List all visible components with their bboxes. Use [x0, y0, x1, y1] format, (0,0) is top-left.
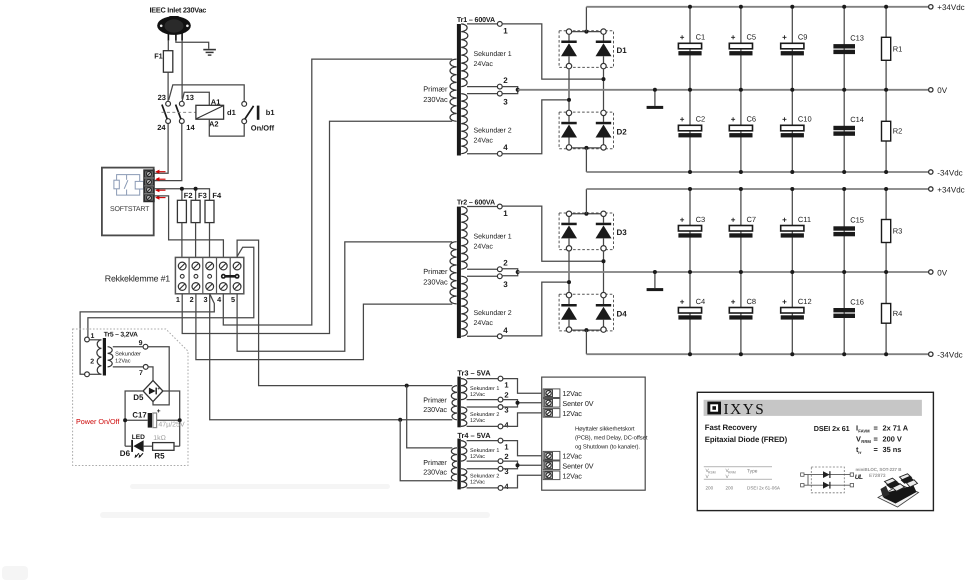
wire relay coil A2 to pushbutton b1 bottom [209, 119, 244, 136]
wire D1 cathodes junction [572, 31, 601, 33]
svg-text:230Vac: 230Vac [423, 405, 447, 414]
wire Tr3 pins 2-3 to PCB Senter 0V [503, 400, 518, 407]
wire bridge AC right column [603, 251, 605, 292]
Tr1 pin 2 [467, 86, 497, 88]
capacitor C8 [729, 308, 752, 314]
Tr2 pin 3 [467, 275, 497, 277]
terminal 0V [929, 88, 933, 92]
wire contact 14 to softstart terminal 2 [154, 124, 182, 181]
Tr4 pin 4 [467, 487, 499, 489]
pushbutton b1 On/Off [242, 102, 260, 124]
Tr3 pin 3 [467, 406, 499, 408]
resistor R5 [153, 443, 174, 451]
svg-text:2: 2 [90, 359, 94, 366]
wire inlet neutral to contact 13 [181, 40, 183, 99]
svg-text:C16: C16 [850, 297, 864, 306]
wire C17 branch left [125, 419, 148, 421]
svg-text:SOFTSTART: SOFTSTART [110, 206, 150, 213]
svg-text:D5: D5 [133, 393, 144, 402]
capacitor C9 [781, 43, 804, 49]
svg-text:F2: F2 [184, 191, 193, 200]
wire Tr5 primary pin 1 to terminal 5 [88, 247, 254, 337]
junction at F2 top [180, 187, 184, 191]
svg-text:1: 1 [503, 27, 508, 36]
capacitor C2 [678, 125, 701, 131]
label Fast Recovery Epitaxial Diode [705, 423, 788, 444]
column wires for C13/C14 [843, 7, 845, 90]
svg-text:24: 24 [157, 123, 166, 132]
jumper between terminals 4 and 5 [221, 274, 240, 279]
svg-text:35 ns: 35 ns [883, 445, 902, 454]
svg-text:Tr1 – 600VA: Tr1 – 600VA [457, 16, 495, 24]
svg-text:Tr2 – 600VA: Tr2 – 600VA [457, 198, 495, 206]
capacitor C17 [148, 408, 161, 428]
wire bridge AC right column [603, 69, 605, 110]
rail +34Vdc [586, 188, 928, 190]
svg-text:Høyttaler sikkerhetskort: Høyttaler sikkerhetskort [575, 426, 635, 433]
svg-text:RRM: RRM [728, 471, 736, 475]
capacitor C16 [833, 308, 855, 312]
svg-text:12Vac: 12Vac [562, 471, 582, 480]
relay contact 23/24 [162, 101, 171, 123]
svg-text:FAVM: FAVM [858, 428, 870, 433]
terminal +34Vdc [929, 187, 933, 191]
Tr1 pin 4 [467, 153, 497, 155]
fuse F3 [191, 200, 200, 222]
wire inlet live to fuse F1 [167, 40, 169, 51]
softstart module box [102, 168, 154, 236]
rail +34Vdc [586, 6, 928, 8]
svg-text:C2: C2 [696, 115, 706, 124]
svg-text:Fast Recovery: Fast Recovery [705, 423, 758, 432]
wire Tr5 pin 7 to bridge D5 top [148, 367, 153, 380]
svg-text:+: + [680, 297, 685, 306]
svg-text:2: 2 [503, 76, 508, 85]
svg-text:Power On/Off: Power On/Off [76, 417, 119, 426]
svg-text:200: 200 [726, 486, 734, 491]
svg-text:DSEI 2x 61: DSEI 2x 61 [814, 424, 850, 433]
ground symbol on 0V rail [654, 90, 656, 106]
Tr3 pin 2 [467, 399, 499, 401]
svg-text:24Vac: 24Vac [474, 320, 494, 327]
svg-text:E72873: E72873 [869, 473, 886, 479]
junction at F3 top [194, 187, 198, 191]
column wires for C1/C2 [689, 7, 691, 90]
svg-text:=: = [874, 445, 879, 454]
svg-text:3: 3 [503, 280, 508, 289]
svg-text:C1: C1 [696, 33, 706, 42]
UL mark [855, 473, 886, 481]
svg-text:R2: R2 [893, 127, 903, 136]
svg-text:(PCB), med Delay, DC-offset: (PCB), med Delay, DC-offset [575, 435, 648, 442]
column wires for C15/C16 [843, 189, 845, 272]
svg-text:og Shutdown (to kanaler).: og Shutdown (to kanaler). [575, 443, 640, 450]
wire contact 23 to pushbutton b1 top [169, 85, 245, 102]
resistor R2 [882, 121, 891, 141]
Tr2 pin 1 [467, 206, 497, 208]
svg-text:D4: D4 [617, 310, 628, 319]
svg-text:3: 3 [203, 295, 207, 304]
capacitor C7 [729, 226, 752, 232]
svg-text:D2: D2 [617, 127, 628, 136]
svg-text:12Vac: 12Vac [562, 389, 582, 398]
wire Tr4 pin4 to PCB 12Vac [503, 475, 543, 488]
wire bridge AC left column [568, 251, 570, 292]
svg-text:+34Vdc: +34Vdc [937, 185, 964, 194]
svg-text:2: 2 [504, 452, 508, 461]
svg-text:V: V [856, 434, 861, 443]
svg-text:4: 4 [503, 143, 508, 152]
svg-text:23: 23 [158, 93, 166, 102]
Tr5 pin 1 [85, 337, 90, 342]
svg-text:12Vac: 12Vac [115, 359, 131, 365]
fuse F2 [177, 200, 186, 222]
rail 0V [518, 89, 929, 91]
svg-text:Sekundær 1: Sekundær 1 [474, 232, 512, 240]
svg-text:Type: Type [747, 469, 758, 475]
svg-text:IEEC Inlet 230Vac: IEEC Inlet 230Vac [150, 6, 207, 15]
svg-text:R3: R3 [893, 227, 903, 236]
wire pin1 to right column [502, 24, 603, 79]
wire branch to Tr4 primary top [407, 386, 453, 448]
Tr5 pin 9 [143, 344, 148, 349]
svg-text:200: 200 [706, 486, 714, 491]
wire Tr4 pins 2-3 to PCB Senter 0V [503, 461, 518, 469]
Tr2 pin 4 [467, 335, 497, 337]
svg-text:C9: C9 [798, 33, 808, 42]
wire terminal 5 loop to Tr3/Tr4 primary top [237, 240, 452, 386]
wire softstart terminal 4 to terminal block position 4 [154, 196, 223, 258]
svg-text:C12: C12 [798, 297, 812, 306]
svg-text:Sekundær 2: Sekundær 2 [474, 127, 512, 135]
svg-text:3: 3 [503, 97, 508, 106]
svg-text:+34Vdc: +34Vdc [937, 3, 964, 12]
svg-text:2: 2 [190, 295, 194, 304]
wire center tap pins 2-3 [502, 87, 518, 94]
wire bridge AC left column [568, 69, 570, 110]
svg-text:1kΩ: 1kΩ [153, 434, 166, 442]
wire D5 plus output (left) [125, 391, 143, 446]
svg-text:14: 14 [186, 123, 195, 132]
svg-text:Tr4 – 5VA: Tr4 – 5VA [457, 431, 491, 440]
capacitor C15 [833, 226, 855, 230]
svg-text:Sekundær: Sekundær [115, 351, 141, 358]
package photo [878, 474, 919, 507]
svg-text:12Vac: 12Vac [470, 454, 485, 460]
svg-text:Rekkeklemme #1: Rekkeklemme #1 [105, 273, 170, 283]
relay contact 13/14 [176, 101, 185, 123]
svg-text:12Vac: 12Vac [470, 418, 485, 424]
svg-text:Primær: Primær [423, 396, 447, 405]
svg-text:Senter 0V: Senter 0V [562, 399, 593, 408]
svg-text:1: 1 [503, 209, 508, 218]
wire D3 cathodes junction [572, 213, 601, 215]
svg-text:IXYS: IXYS [724, 401, 766, 418]
labels terminal numbers 1-5 [176, 295, 235, 304]
capacitor C11 [781, 226, 804, 232]
svg-text:d1: d1 [227, 108, 236, 117]
wire D2 anodes junction [572, 147, 601, 149]
wire Tr3 pin4 to PCB 12Vac [503, 413, 543, 427]
wire terminal 3 to Tr3/Tr4 primary bottom [210, 294, 453, 420]
svg-text:+: + [731, 297, 736, 306]
column wires for C5/C6 [740, 7, 742, 90]
svg-text:D1: D1 [617, 46, 628, 55]
Tr5 pin 2 [85, 372, 90, 377]
column wires for C9/C10 [791, 7, 793, 90]
column wires for C7/C8 [740, 189, 742, 272]
softstart terminal block [144, 170, 154, 202]
svg-text:230Vac: 230Vac [423, 277, 448, 286]
svg-text:Tr3 – 5VA: Tr3 – 5VA [457, 369, 491, 378]
capacitor C10 [781, 125, 804, 131]
svg-text:A2: A2 [209, 120, 219, 129]
svg-text:230Vac: 230Vac [423, 95, 448, 104]
svg-text:D6: D6 [120, 449, 131, 458]
junction Tr3/Tr4 primary top [405, 384, 409, 388]
column wires for R3/R4 [885, 189, 887, 272]
PCB terminal rows [543, 389, 560, 480]
rectifier D1 (upper half-bridge) [559, 31, 613, 68]
junction C17 right [178, 418, 182, 422]
wire pin4 to left column [502, 100, 569, 154]
junction C17 left [123, 418, 127, 422]
capacitor C4 [678, 308, 701, 314]
wire contact 13 to relay coil A1 [182, 92, 209, 105]
LED D6 [131, 440, 143, 458]
wire F1 to contact 23 [167, 72, 169, 101]
faint scan artifacts [2, 484, 490, 580]
wire terminal 2 to Tr2 primary bottom [196, 294, 452, 360]
svg-text:Epitaxial Diode (FRED): Epitaxial Diode (FRED) [705, 435, 788, 444]
wire Tr4 pin1 to PCB 12Vac [503, 441, 543, 456]
IXYS datasheet box [697, 392, 933, 510]
svg-text:200 V: 200 V [883, 434, 902, 443]
svg-text:+: + [731, 215, 736, 224]
transformer Tr1 [450, 24, 468, 156]
resistor R4 [882, 304, 891, 324]
terminal 0V [929, 270, 933, 274]
svg-text:+: + [680, 115, 685, 124]
svg-text:LED: LED [132, 434, 145, 441]
IEC inlet connector J1 [157, 16, 191, 41]
wire LED branch [125, 445, 131, 447]
Tr4 pin 2 [467, 460, 499, 462]
capacitor C5 [729, 43, 752, 49]
wire contact 24 to softstart terminal 1 [154, 124, 168, 174]
Tr3 pin 4 [467, 425, 499, 427]
relay coil d1 [196, 105, 224, 119]
labels PCB terminals [562, 389, 593, 480]
svg-text:+: + [680, 215, 685, 224]
svg-text:Senter 0V: Senter 0V [562, 461, 593, 470]
svg-text:7: 7 [139, 370, 143, 377]
rectifier D3 (upper half-bridge) [559, 213, 613, 250]
wire pin4 to left column [502, 282, 569, 336]
module symbol (dual diode) [801, 467, 854, 493]
column wires for R1/R2 [885, 7, 887, 90]
svg-text:+: + [157, 408, 161, 415]
wire F3 to terminal 2 [195, 223, 197, 258]
svg-text:+: + [782, 33, 787, 42]
wire F4 to terminal 3 [209, 223, 211, 258]
svg-text:R4: R4 [893, 309, 903, 318]
terminal +34Vdc [929, 5, 933, 9]
svg-text:D3: D3 [617, 228, 628, 237]
svg-text:12Vac: 12Vac [470, 392, 485, 398]
terminal -34Vdc [929, 170, 933, 174]
transformer Tr2 [450, 207, 468, 339]
junction Tr3/Tr4 primary bottom [398, 418, 402, 422]
wire branch to Tr4 primary bottom [400, 420, 452, 481]
wire terminal 3 to Tr5 primary pin 2 [80, 294, 214, 375]
svg-text:C14: C14 [850, 115, 864, 124]
capacitor C13 [833, 44, 855, 48]
svg-text:24Vac: 24Vac [474, 137, 494, 144]
fuse F4 [205, 200, 214, 222]
wire C17 branch right [157, 419, 180, 421]
resistor R1 [882, 37, 891, 60]
svg-text:Tr5 – 3,2VA: Tr5 – 3,2VA [104, 332, 138, 339]
svg-text:C5: C5 [747, 33, 757, 42]
wire Tr3 pin1 to PCB 12Vac [503, 379, 543, 394]
svg-text:+: + [782, 115, 787, 124]
rail -34Vdc [586, 171, 928, 173]
fuse F1 [163, 51, 172, 72]
svg-text:0V: 0V [937, 268, 947, 277]
svg-text:Primær: Primær [423, 267, 448, 276]
svg-text:C7: C7 [747, 215, 757, 224]
svg-text:R5: R5 [154, 452, 165, 461]
svg-text:F3: F3 [198, 191, 207, 200]
transformer Tr3 [451, 377, 466, 428]
svg-text:2: 2 [504, 390, 508, 399]
column wires for C11/C12 [791, 189, 793, 272]
svg-text:Sekundær 2: Sekundær 2 [474, 309, 512, 317]
svg-text:C6: C6 [747, 115, 757, 124]
svg-text:-34Vdc: -34Vdc [937, 351, 962, 360]
svg-text:1: 1 [176, 295, 180, 304]
svg-text:C3: C3 [696, 215, 706, 224]
svg-text:47µ/25V: 47µ/25V [158, 421, 185, 429]
IXYS header band [704, 400, 922, 416]
label PCB description [575, 426, 648, 451]
Tr3 pin 1 [467, 378, 499, 380]
dashed outline power-on module [73, 329, 188, 466]
svg-text:RRM: RRM [861, 439, 871, 444]
rail 0V [518, 271, 929, 273]
svg-text:12Vac: 12Vac [562, 452, 582, 461]
capacitor C1 [678, 43, 701, 49]
svg-text:C13: C13 [850, 34, 864, 43]
Tr5 pin 7 [143, 365, 148, 370]
Tr1 pin 3 [467, 93, 497, 95]
svg-text:UL: UL [855, 474, 863, 481]
svg-text:9: 9 [139, 340, 143, 347]
svg-text:+: + [782, 215, 787, 224]
svg-text:C11: C11 [798, 215, 811, 224]
svg-text:b1: b1 [266, 108, 275, 117]
svg-text:Sekundær 1: Sekundær 1 [474, 50, 512, 58]
svg-text:+: + [782, 297, 787, 306]
Tr4 pin 3 [467, 468, 499, 470]
svg-text:F4: F4 [212, 191, 222, 200]
mechanical linkage (dashed) [162, 111, 196, 113]
svg-text:24Vac: 24Vac [474, 61, 494, 68]
svg-text:C10: C10 [798, 115, 812, 124]
svg-text:=: = [874, 434, 879, 443]
wire F2 to terminal 1 [181, 223, 183, 258]
terminal block Rekkeklemme #1 [175, 257, 243, 293]
ground symbol on 0V rail [654, 272, 656, 288]
svg-text:miniBLOC, SOT-227 B: miniBLOC, SOT-227 B [856, 467, 902, 472]
transformer Tr5 [97, 338, 113, 376]
wire center tap pins 2-3 [502, 269, 518, 276]
ground earth symbol [203, 50, 216, 56]
rectifier D2 (lower half-bridge) [559, 112, 613, 149]
svg-text:+: + [731, 115, 736, 124]
svg-text:A1: A1 [211, 97, 221, 106]
resistor R3 [882, 220, 891, 243]
capacitor C6 [729, 125, 752, 131]
label ratings [856, 424, 909, 455]
svg-text:12Vac: 12Vac [470, 480, 485, 486]
svg-text:Primær: Primær [423, 85, 448, 94]
svg-text:24Vac: 24Vac [474, 244, 494, 251]
svg-text:C4: C4 [696, 297, 706, 306]
svg-text:+: + [680, 33, 685, 42]
wire terminal 4 to Tr1 primary top [223, 59, 452, 325]
wire Tr5 pin 9 to bridge D5 bottom [148, 347, 169, 405]
wire inlet earth to ground [176, 40, 209, 49]
svg-text:4: 4 [503, 326, 508, 335]
capacitor C14 [833, 126, 855, 130]
svg-text:C17: C17 [132, 411, 146, 420]
svg-text:230Vac: 230Vac [423, 468, 447, 477]
svg-text:RSM: RSM [708, 471, 716, 475]
wire R5 to right leg [174, 445, 180, 447]
svg-text:rr: rr [858, 450, 862, 455]
wire terminal 1 to Tr1 primary bottom [182, 121, 452, 333]
svg-text:13: 13 [186, 93, 194, 102]
speaker protection PCB box [542, 377, 646, 490]
terminal -34Vdc [929, 352, 933, 356]
IXYS logo [707, 402, 721, 415]
ratings table [704, 467, 781, 491]
svg-text:On/Off: On/Off [251, 124, 275, 133]
svg-text:+: + [731, 33, 736, 42]
svg-text:=: = [874, 424, 879, 433]
svg-text:C15: C15 [850, 216, 864, 225]
wire pin1 to right column [502, 206, 603, 261]
svg-text:0V: 0V [937, 86, 947, 95]
wire D4 anodes junction [572, 329, 601, 331]
column wires for C3/C4 [689, 189, 691, 272]
svg-text:12Vac: 12Vac [562, 409, 582, 418]
svg-text:2x 71 A: 2x 71 A [883, 424, 909, 433]
svg-text:5: 5 [231, 295, 235, 304]
svg-text:+: + [157, 386, 160, 392]
transformer Tr4 [451, 439, 466, 490]
wire D5 minus output (right) [163, 391, 180, 446]
bridge rectifier D5 [143, 381, 163, 402]
rectifier D4 (lower half-bridge) [559, 294, 613, 331]
wire softstart terminal 3 to fuses F2 F3 F4 [154, 189, 209, 201]
rail -34Vdc [586, 353, 928, 355]
svg-text:C8: C8 [747, 297, 757, 306]
svg-text:-34Vdc: -34Vdc [937, 168, 962, 177]
Tr2 pin 2 [467, 268, 497, 270]
